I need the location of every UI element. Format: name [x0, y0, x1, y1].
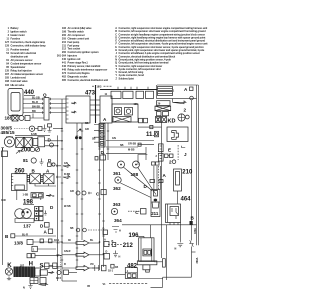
svg-text:A: A	[184, 87, 188, 92]
svg-text:364: 364	[114, 218, 122, 223]
svg-text:2: 2	[156, 155, 158, 158]
svg-text:135: 135	[134, 103, 139, 106]
svg-text:Connector, electrical distribu: Connector, electrical distribution unit	[68, 79, 109, 82]
svg-text:GR-SB: GR-SB	[128, 142, 136, 145]
svg-text:18/3: 18/3	[97, 86, 102, 89]
svg-text:Fusebox: Fusebox	[11, 38, 21, 41]
svg-text:D: D	[50, 205, 54, 210]
svg-text:GR: GR	[85, 128, 89, 131]
svg-text:85: 85	[6, 66, 9, 69]
svg-text:81: 81	[6, 59, 9, 62]
svg-text:J: J	[184, 152, 187, 157]
svg-text:Ground rail in electrical: Ground rail in electrical	[11, 52, 37, 55]
svg-text:AC pressure sensor: AC pressure sensor	[11, 59, 33, 62]
svg-text:Soldered joint: Soldered joint	[119, 77, 135, 80]
svg-text:N: N	[23, 287, 25, 290]
svg-text:Speedometer: Speedometer	[11, 66, 26, 69]
svg-text:54: 54	[6, 52, 9, 55]
svg-text:11.: 11.	[146, 132, 154, 138]
svg-text:361: 361	[113, 171, 121, 176]
svg-text:8-W: 8-W	[1, 199, 6, 202]
svg-text:H: H	[119, 230, 121, 233]
svg-text:N: N	[175, 248, 177, 251]
svg-text:210: 210	[182, 170, 193, 176]
svg-text:13/8: 13/8	[14, 240, 23, 245]
svg-text:Ignition switch: Ignition switch	[11, 31, 28, 34]
svg-text:BN-SB: BN-SB	[32, 105, 40, 108]
svg-text:30: 30	[68, 239, 71, 242]
svg-text:1: 1	[173, 90, 175, 93]
svg-text:187: 187	[5, 73, 10, 76]
svg-text:SB: SB	[70, 227, 74, 230]
svg-text:M-SB: M-SB	[128, 148, 135, 151]
svg-text:2: 2	[184, 108, 187, 113]
svg-text:482: 482	[127, 263, 138, 269]
svg-text:Z: Z	[115, 77, 117, 80]
svg-text:18-5: 18-5	[56, 277, 62, 280]
svg-text:B: B	[5, 234, 9, 239]
svg-text:11: 11	[6, 38, 9, 41]
svg-text:362: 362	[113, 186, 121, 191]
svg-text:464: 464	[181, 197, 192, 203]
svg-text:D: D	[48, 158, 52, 163]
svg-text:Q: Q	[43, 93, 47, 98]
svg-text:363: 363	[113, 202, 121, 207]
svg-text:18-1: 18-1	[108, 270, 114, 273]
svg-text:Idle air valve: Idle air valve	[11, 84, 25, 87]
svg-text:D: D	[106, 251, 108, 254]
svg-text:W-SB: W-SB	[64, 205, 71, 208]
svg-text:E: E	[168, 148, 171, 153]
svg-text:85: 85	[87, 285, 90, 288]
svg-text:211: 211	[151, 211, 159, 216]
svg-text:R: R	[64, 263, 66, 266]
svg-text:H: H	[119, 256, 121, 259]
svg-text:SB: SB	[85, 122, 89, 125]
svg-text:B: B	[112, 240, 114, 243]
svg-text:A: A	[44, 230, 48, 235]
svg-text:212: 212	[123, 243, 134, 249]
svg-text:200: 200	[21, 148, 32, 154]
svg-text:S: S	[40, 263, 44, 269]
svg-text:A: A	[104, 239, 106, 242]
svg-text:185: 185	[5, 116, 13, 121]
svg-text:BL-SB: BL-SB	[32, 96, 40, 99]
svg-text:GN: GN	[64, 162, 68, 165]
svg-text:11: 11	[105, 93, 108, 96]
svg-text:SB: SB	[120, 144, 124, 147]
svg-text:2: 2	[8, 31, 10, 34]
svg-text:2: 2	[169, 160, 172, 165]
svg-text:A: A	[46, 169, 50, 174]
svg-text:BN: BN	[32, 110, 36, 113]
svg-text:485/15: 485/15	[1, 130, 15, 135]
svg-text:260A: 260A	[196, 257, 199, 263]
svg-text:BL: BL	[90, 239, 94, 242]
svg-text:A: A	[103, 117, 107, 122]
svg-text:473: 473	[85, 91, 96, 97]
svg-text:V1: V1	[103, 283, 107, 286]
svg-text:GN-R: GN-R	[64, 250, 71, 253]
svg-text:KD: KD	[168, 118, 176, 124]
svg-text:BL-R: BL-R	[32, 101, 38, 104]
svg-text:196: 196	[129, 233, 140, 239]
svg-text:A: A	[163, 173, 167, 178]
svg-text:18-1: 18-1	[54, 239, 60, 242]
svg-text:C: C	[135, 210, 139, 215]
svg-text:SB: SB	[92, 138, 96, 141]
svg-text:188: 188	[5, 80, 10, 83]
svg-text:1-SB: 1-SB	[23, 194, 29, 197]
svg-text:VO: VO	[90, 263, 94, 266]
svg-text:Air intake temperature sensor: Air intake temperature sensor	[11, 73, 44, 76]
svg-text:8-SB: 8-SB	[31, 133, 37, 136]
svg-text:B: B	[32, 169, 36, 174]
svg-text:GN: GN	[112, 137, 116, 140]
svg-text:D: D	[53, 195, 55, 198]
svg-text:81: 81	[23, 158, 29, 163]
svg-text:Connection, shift indicator la: Connection, shift indicator lamp	[11, 45, 47, 48]
svg-text:Cold start valve: Cold start valve	[11, 80, 29, 83]
svg-text:430A: 430A	[194, 228, 197, 234]
svg-text:196: 196	[5, 84, 10, 87]
svg-text:1: 1	[33, 249, 35, 252]
svg-text:BL-R: BL-R	[22, 234, 28, 237]
svg-text:GR: GR	[70, 190, 74, 193]
svg-text:B: B	[191, 216, 195, 221]
svg-text:D: D	[40, 224, 44, 229]
svg-text:1B: 1B	[115, 266, 118, 269]
svg-text:R-SB: R-SB	[64, 173, 70, 176]
svg-text:485: 485	[62, 79, 67, 82]
svg-text:D: D	[48, 138, 52, 143]
svg-text:137: 137	[23, 224, 31, 229]
svg-text:128: 128	[5, 45, 10, 48]
